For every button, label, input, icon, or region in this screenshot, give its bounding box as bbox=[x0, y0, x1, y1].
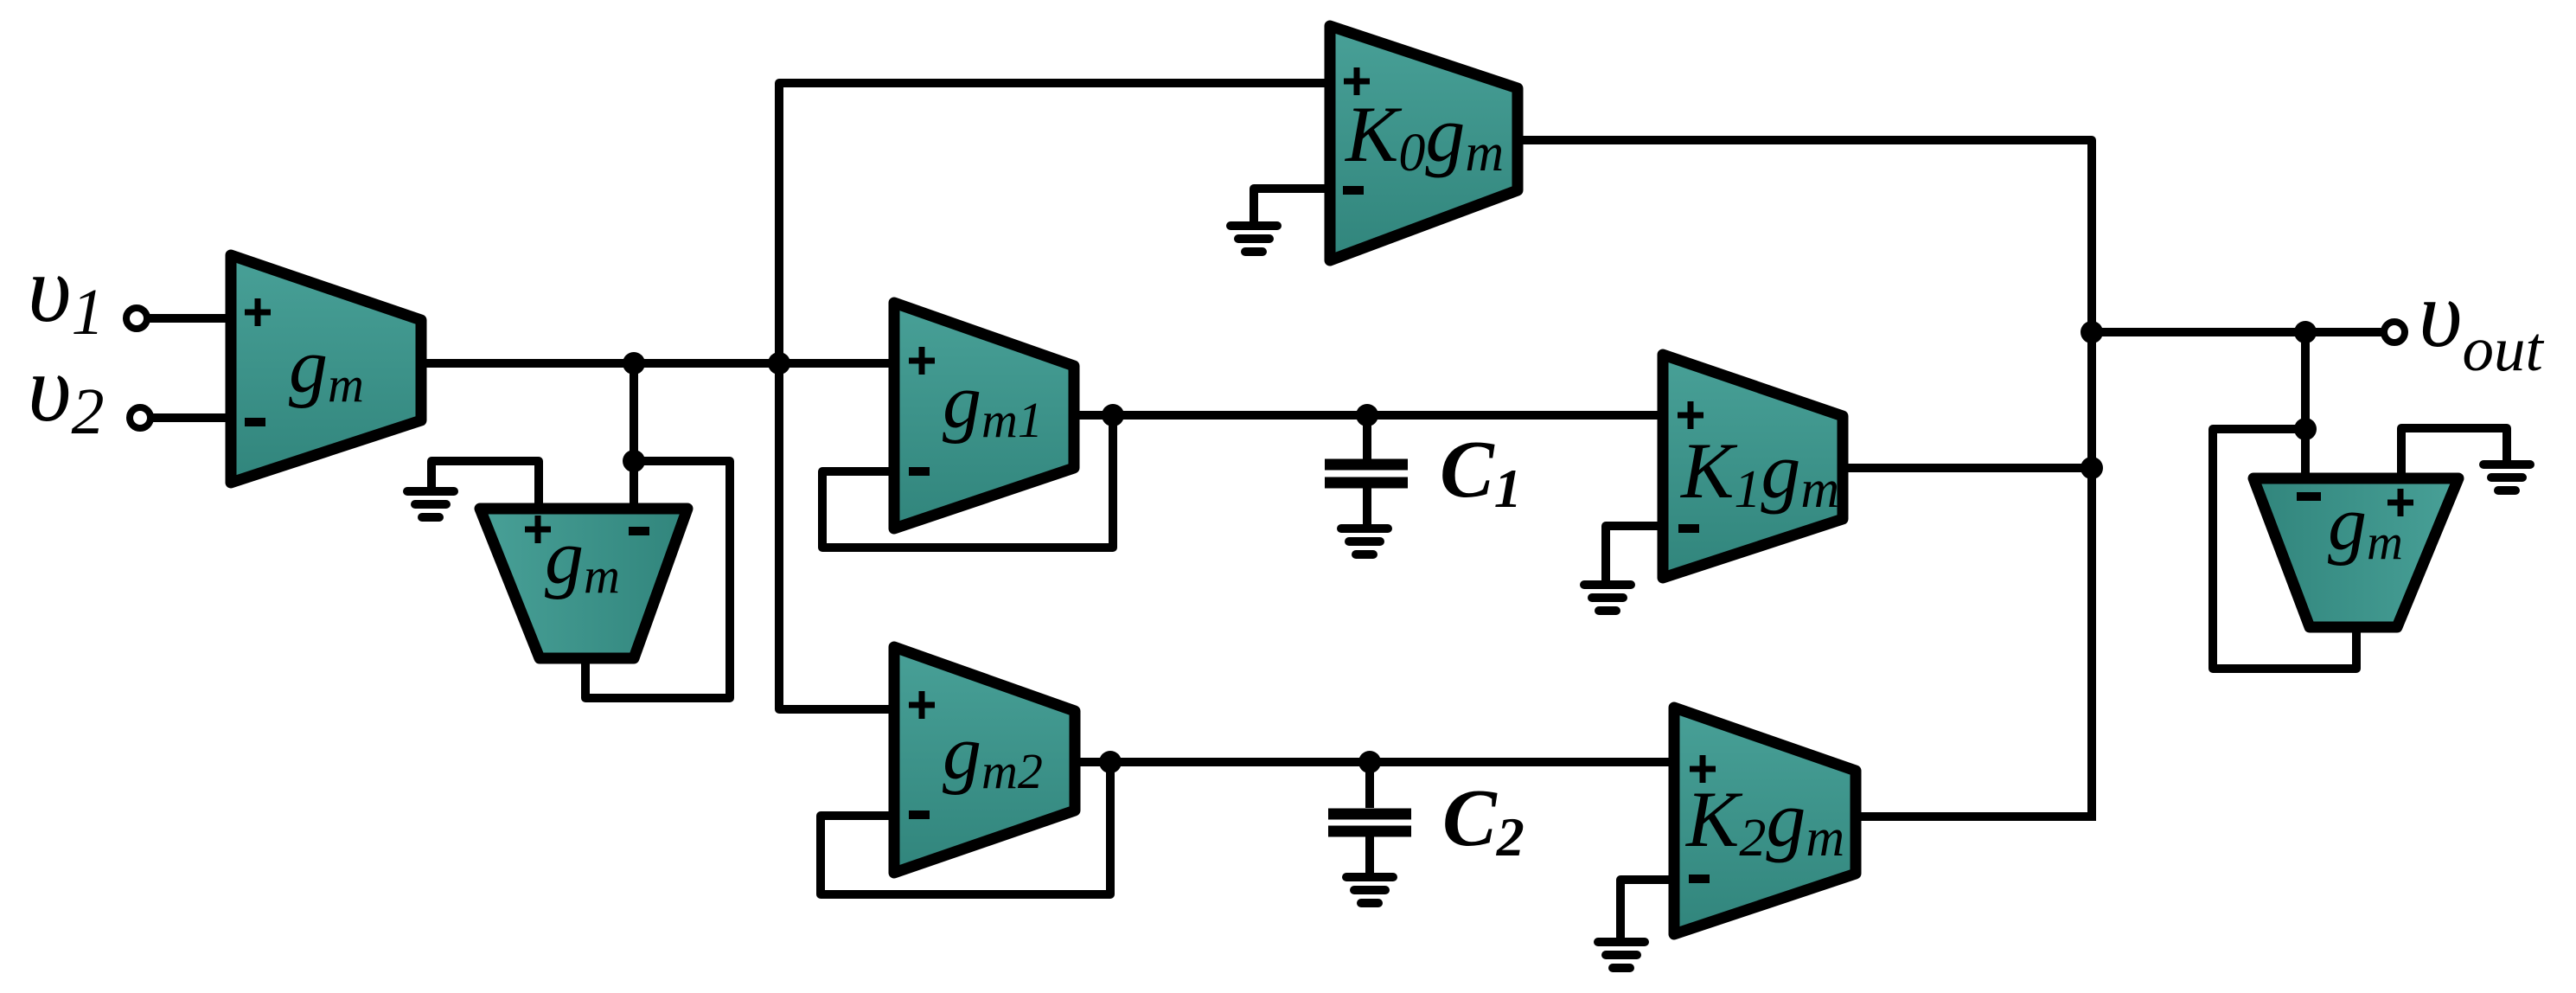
terminal vout bbox=[2384, 322, 2405, 343]
node U6 minus junction bbox=[2294, 418, 2317, 440]
ground C2 bbox=[1346, 877, 1393, 903]
terminal v2 bbox=[130, 407, 150, 428]
capacitor C1 bbox=[1325, 415, 1408, 525]
ground C1 bbox=[1341, 529, 1388, 554]
node B junction bbox=[768, 352, 790, 375]
capacitor C2 bbox=[1328, 762, 1411, 874]
ground K0gm minus bbox=[1230, 226, 1277, 252]
node bus vout junction bbox=[2081, 321, 2103, 343]
op-amp U2 gm grounded resistor bbox=[480, 509, 687, 658]
ground U2 plus bbox=[407, 491, 454, 517]
wire v1 input bbox=[148, 314, 231, 323]
op-amp U8 K2gm bbox=[1674, 708, 1856, 934]
op-amp U4 gm1 bbox=[894, 303, 1074, 529]
wire vout bbox=[2092, 328, 2383, 336]
wire v2 input bbox=[151, 413, 231, 422]
node vout junction bbox=[2294, 321, 2317, 343]
wire K2gm output to right bus bbox=[1856, 812, 2095, 821]
wire node A down to U2 - input bbox=[630, 363, 638, 509]
wire K1gm output to right bus bbox=[1843, 464, 2095, 472]
wire gm1 feedback to - input bbox=[822, 415, 1113, 548]
op-amp U5 K1gm bbox=[1663, 355, 1843, 578]
wire K0gm output to right bus bbox=[1518, 140, 2092, 821]
node bus K1 junction bbox=[2081, 457, 2103, 479]
op-amp U3 K0gm bbox=[1330, 26, 1518, 260]
wire K2gm - input to ground bbox=[1620, 880, 1674, 938]
node gm2 output junction bbox=[1099, 751, 1122, 773]
node C1 junction bbox=[1356, 404, 1378, 426]
wire vout node down to U6 - input bbox=[2301, 332, 2310, 478]
op-amp U1 gm input stage bbox=[231, 255, 421, 483]
ground K2gm minus bbox=[1598, 942, 1645, 968]
wire K0gm - input to ground bbox=[1254, 189, 1330, 221]
node A junction bbox=[623, 352, 645, 375]
wire U2 + input to ground bbox=[431, 461, 539, 509]
op-amp U6 gm output load bbox=[2253, 478, 2458, 627]
wire gm2 feedback to - input bbox=[821, 762, 1110, 894]
wire U6 feedback output to - node bbox=[2213, 429, 2356, 669]
ground U6 plus bbox=[2483, 464, 2530, 490]
node U2 minus junction bbox=[623, 450, 645, 472]
wire K1gm - input to ground bbox=[1606, 526, 1663, 580]
wire U6 + input to ground bbox=[2401, 428, 2507, 478]
ground K1gm minus bbox=[1584, 585, 1631, 611]
node C2 junction bbox=[1358, 751, 1381, 773]
node gm1 output junction bbox=[1102, 404, 1124, 426]
terminal v1 bbox=[126, 308, 147, 329]
wire U2 feedback output to - input bbox=[585, 461, 730, 698]
wire gm2 output to K2gm + input bbox=[1075, 758, 1674, 766]
wire U1 output to gm1 + input bbox=[421, 359, 894, 368]
op-amp U7 gm2 bbox=[894, 647, 1075, 873]
wire left bus: top to K0gm and down to gm2 + input bbox=[779, 83, 1330, 709]
wire gm1 output to K1gm + input bbox=[1074, 411, 1663, 420]
